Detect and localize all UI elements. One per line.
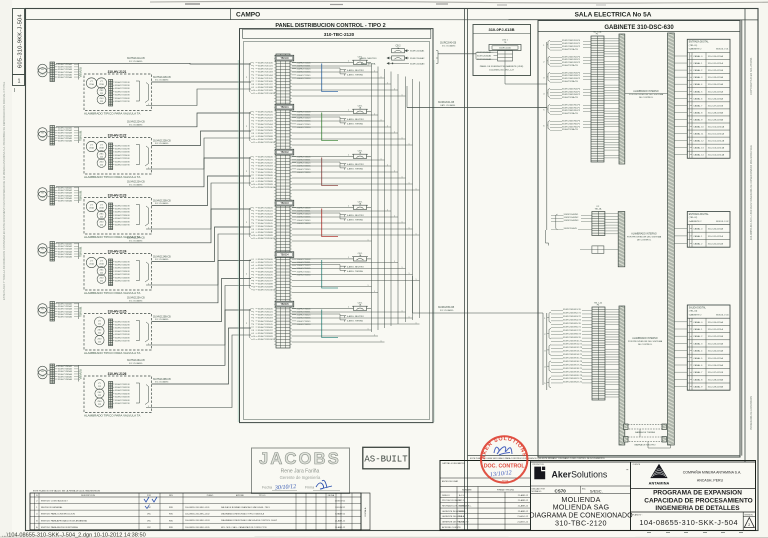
svg-text:4 AWG. TIERRA: 4 AWG. TIERRA <box>347 122 363 125</box>
svg-text:310RC2050/S16-T3: 310RC2050/S16-T3 <box>563 361 583 363</box>
svg-text:ANTES DE USAR: ANTES DE USAR <box>442 480 459 483</box>
svg-text:6: 6 <box>253 274 254 276</box>
gabinete group2 trunk tail <box>546 230 549 246</box>
svg-text:310-C49-0159A: 310-C49-0159A <box>708 118 724 121</box>
svg-text:310HCY2651/N: 310HCY2651/N <box>115 384 130 386</box>
svg-text:310HV2121A-TB: 310HV2121A-TB <box>562 48 578 51</box>
svg-text:TBL 1-2A: TBL 1-2A <box>593 30 602 33</box>
svg-text:4 AWG. NEUTRO: 4 AWG. NEUTRO <box>347 315 364 318</box>
svg-text:1: 1 <box>381 119 382 121</box>
gabinete header <box>538 31 740 33</box>
svg-text:310HCY215A3: 310HCY215A3 <box>58 68 73 71</box>
svg-text:310RC2050/S13-T0: 310RC2050/S13-T0 <box>563 351 583 353</box>
svg-text:PROGRAMA DE EXPANSION: PROGRAMA DE EXPANSION <box>653 490 742 497</box>
svg-text:1: 1 <box>416 279 417 281</box>
svg-text:21-ABR-12: 21-ABR-12 <box>518 494 529 497</box>
svg-text:1: 1 <box>368 239 369 241</box>
svg-text:310HCY2255/5: 310HCY2255/5 <box>258 127 273 129</box>
svg-text:212: 212 <box>98 342 101 344</box>
instrument tag HS-2121 cluster 1 <box>38 64 47 73</box>
svg-text:310-C42-0152A: 310-C42-0152A <box>708 69 724 72</box>
group3 table wires <box>674 321 687 323</box>
cable 310HV2123B-CB wire <box>152 176 252 206</box>
bar link wire group1 <box>625 93 668 95</box>
cable 310HV2123C-CB wire <box>146 183 251 229</box>
fuse feed wire section 2 <box>292 117 345 119</box>
terminal strip valve box cluster 3 <box>109 203 113 230</box>
svg-text:310RC2041/N6-P0: 310RC2041/N6-P0 <box>562 120 581 122</box>
svg-text:1: 1 <box>381 158 382 160</box>
svg-text:310HCY2150/0: 310HCY2150/0 <box>258 63 273 65</box>
svg-text:310-C41-0151A: 310-C41-0151A <box>708 62 724 65</box>
svg-text:TB8403: TB8403 <box>280 202 289 205</box>
section 6 bus connector wires <box>292 311 406 313</box>
terminal strip cluster 3 field <box>50 186 55 206</box>
svg-text:CS70: CS70 <box>555 488 567 493</box>
svg-text:310HCY235A4: 310HCY235A4 <box>58 194 73 197</box>
svg-text:™: ™ <box>626 468 629 472</box>
svg-text:310HCY2257/N: 310HCY2257/N <box>115 165 130 167</box>
svg-text:ALAMBRADO TIPICO PARA VALVULA: ALAMBRADO TIPICO PARA VALVULA TA <box>84 175 140 179</box>
aker solutions logo block <box>531 462 631 531</box>
svg-text:11: 11 <box>253 142 255 144</box>
svg-text:310RC2050/S19-T2: 310RC2050/S19-T2 <box>563 371 583 373</box>
fuse row neutro section 5 <box>344 266 346 268</box>
svg-text:310HV2124B-CB: 310HV2124B-CB <box>153 256 171 258</box>
fuse row tierra section 6 <box>344 320 346 322</box>
svg-text:310-C45-0155A: 310-C45-0155A <box>708 357 724 360</box>
svg-text:310HCY2657/7: 310HCY2657/7 <box>258 330 273 332</box>
svg-text:310RC2040/N2: 310RC2040/N2 <box>564 217 580 219</box>
svg-text:15-ABR-12: 15-ABR-12 <box>335 526 346 529</box>
svg-text:310RC2050/S1-T0: 310RC2050/S1-T0 <box>563 309 582 311</box>
svg-text:1: 1 <box>387 164 388 166</box>
svg-text:7: 7 <box>253 277 254 279</box>
svg-text:CANAL 12: CANAL 12 <box>693 140 704 143</box>
svg-text:212: 212 <box>98 333 101 335</box>
svg-text:215A: 215A <box>89 147 94 150</box>
svg-text:310HCY2554/N: 310HCY2554/N <box>115 331 130 333</box>
svg-text:1: 1 <box>348 206 349 208</box>
svg-text:1: 1 <box>416 233 417 235</box>
svg-text:CAMPO: CAMPO <box>236 12 260 19</box>
cable 310RC2040-CB to 0PJ wire <box>438 53 476 55</box>
svg-text:ZSO: ZSO <box>99 222 104 224</box>
svg-text:NOMBRE: NOMBRE <box>462 490 472 492</box>
svg-text:310HCY2456/6: 310HCY2456/6 <box>258 226 273 228</box>
gabinete group3 channel table <box>687 305 730 390</box>
svg-text:310-HV-2121: 310-HV-2121 <box>108 70 127 74</box>
colored wire section 5 <box>322 260 338 288</box>
svg-text:EMITIDO COMO AS-BUILT: EMITIDO COMO AS-BUILT <box>41 500 68 503</box>
svg-text:(TB1-01): (TB1-01) <box>689 45 698 47</box>
svg-text:21-ABR-12: 21-ABR-12 <box>335 519 346 522</box>
svg-text:CANAL 11: CANAL 11 <box>693 133 704 136</box>
svg-text:1: 1 <box>381 76 382 78</box>
svg-text:310HCY2351/1: 310HCY2351/1 <box>258 160 273 162</box>
svg-text:310HCY25541: 310HCY25541 <box>297 271 312 273</box>
cable 310HV2121B-CB wire <box>152 81 252 83</box>
svg-text:5/C #16 AWG: 5/C #16 AWG <box>129 123 143 126</box>
svg-text:310HCY2356/6: 310HCY2356/6 <box>258 175 273 177</box>
section 1 bus connector wires <box>292 65 372 67</box>
svg-text:ZSC: ZSC <box>100 270 105 272</box>
svg-text:310HCY235A3: 310HCY235A3 <box>58 192 73 195</box>
svg-text:310HV2123A-TB: 310HV2123A-TB <box>562 80 578 83</box>
svg-text:310HCY2655/N: 310HCY2655/N <box>115 397 130 399</box>
svg-text:310HCY22510/10: 310HCY22510/10 <box>258 142 276 144</box>
svg-text:1: 1 <box>416 188 417 190</box>
svg-text:1: 1 <box>253 309 254 311</box>
svg-text:1: 1 <box>394 215 395 217</box>
svg-text:ESCALA: ESCALA <box>364 507 367 516</box>
svg-text:3: 3 <box>253 69 254 71</box>
svg-text:310HCY245A6: 310HCY245A6 <box>58 255 73 258</box>
doc control stamp signature <box>494 447 512 455</box>
svg-text:310HCY22541: 310HCY22541 <box>297 124 312 126</box>
svg-text:EMITIDO PARA REVISION INTERNA: EMITIDO PARA REVISION INTERNA <box>41 526 78 529</box>
svg-text:4: 4 <box>253 318 254 320</box>
svg-text:310RC2041/N5-P0: 310RC2041/N5-P0 <box>562 104 581 106</box>
svg-text:310HCY2357/N: 310HCY2357/N <box>115 225 130 227</box>
svg-text:8: 8 <box>253 178 254 180</box>
svg-text:POR PROVEEDOR DEL SISTEMA: POR PROVEEDOR DEL SISTEMA <box>628 340 663 343</box>
panel left bracket section 3 <box>249 157 250 187</box>
svg-text:310HCY2251/N: 310HCY2251/N <box>115 145 130 147</box>
svg-text:310-C40-0150A: 310-C40-0150A <box>708 227 724 230</box>
svg-text:310HCY2451/1: 310HCY2451/1 <box>258 211 273 213</box>
valve dashed box cluster 5 <box>84 314 152 351</box>
svg-text:310HCY255A4: 310HCY255A4 <box>58 310 73 313</box>
valve dashed box cluster 1 <box>84 74 152 111</box>
svg-text:310HCY2156/N: 310HCY2156/N <box>115 98 130 100</box>
cable 310HV2124A-CB wire <box>56 209 251 243</box>
svg-text:INGENIERIA DE DETALLES: INGENIERIA DE DETALLES <box>655 505 740 512</box>
svg-text:1: 1 <box>409 273 410 275</box>
svg-text:Valvula: Valvula <box>79 131 83 141</box>
zone divider campo/sala <box>464 9 466 531</box>
terminal strip valve box cluster 6 <box>109 382 113 409</box>
cable 310HV2125A-CB wire <box>56 261 251 303</box>
svg-text:MODULO 01: MODULO 01 <box>716 49 729 51</box>
wire bus valvula cluster 5 <box>78 303 80 319</box>
svg-text:MOLIENDA SAG: MOLIENDA SAG <box>553 503 610 512</box>
panel name plate 310-TBC-2120 <box>243 29 431 38</box>
svg-text:310RC2040/N3: 310RC2040/N3 <box>564 220 580 222</box>
svg-text:310HCY2454/4: 310HCY2454/4 <box>258 220 273 222</box>
svg-text:212: 212 <box>98 395 101 397</box>
svg-text:ALAMBRADO INTERNO: ALAMBRADO INTERNO <box>631 233 657 236</box>
svg-text:310-C46-0156A: 310-C46-0156A <box>708 97 724 100</box>
svg-text:310RC2050/S5-T0: 310RC2050/S5-T0 <box>563 323 582 325</box>
top header band line <box>26 19 759 21</box>
svg-text:ZSO: ZSO <box>99 278 104 280</box>
svg-text:310RC2050/S21-T0: 310RC2050/S21-T0 <box>563 378 583 380</box>
svg-text:2: 2 <box>253 211 254 213</box>
svg-text:310-C44-0154A: 310-C44-0154A <box>708 350 724 353</box>
svg-text:310RC2050-CB: 310RC2050-CB <box>438 307 455 309</box>
group3 ladder-bar wires <box>605 309 619 311</box>
svg-text:5/C #16 AWG: 5/C #16 AWG <box>129 299 143 302</box>
panel left bracket section 1 <box>249 63 250 93</box>
svg-text:6: 6 <box>253 78 254 80</box>
svg-text:1: 1 <box>348 110 349 112</box>
svg-text:9: 9 <box>253 87 254 89</box>
svg-text:4 AWG. NEUTRO: 4 AWG. NEUTRO <box>347 163 364 166</box>
svg-text:310HCY2553/N: 310HCY2553/N <box>115 328 130 330</box>
svg-text:CANAL 0: CANAL 0 <box>693 321 703 324</box>
svg-text:310HCY26541: 310HCY26541 <box>297 321 312 323</box>
svg-text:2: 2 <box>253 312 254 314</box>
gabinete group1 brackets <box>548 40 550 49</box>
svg-text:6: 6 <box>253 127 254 129</box>
svg-text:310HCY2250/0: 310HCY2250/0 <box>258 112 273 114</box>
colored wire section 6 <box>322 310 338 338</box>
svg-text:4: 4 <box>253 217 254 219</box>
panel left bracket section 6 <box>249 309 250 339</box>
svg-text:310HCY25510/10: 310HCY25510/10 <box>258 290 276 292</box>
barra neutro end block right <box>662 437 667 443</box>
svg-text:310HCY2552/2: 310HCY2552/2 <box>258 265 273 267</box>
svg-text:CANAL 7: CANAL 7 <box>693 104 703 107</box>
svg-text:310HCY2659/9: 310HCY2659/9 <box>258 336 273 338</box>
valve dashed box cluster 6 <box>84 376 152 413</box>
svg-text:Valvula: Valvula <box>79 307 83 317</box>
svg-text:1: 1 <box>348 61 349 63</box>
svg-text:310HCY2457/N: 310HCY2457/N <box>115 281 130 283</box>
svg-text:1: 1 <box>18 79 21 85</box>
fuse feed wire section 1 <box>292 68 345 70</box>
svg-text:ZSO: ZSO <box>99 98 104 100</box>
svg-text:310RC2050/S4-T3: 310RC2050/S4-T3 <box>563 320 582 322</box>
svg-text:R.V.D.,O.R.L.: R.V.D.,O.R.L. <box>459 506 472 508</box>
svg-text:310-C50-01510A: 310-C50-01510A <box>708 126 725 129</box>
svg-text:ALAMBRADO TIPICO PARA VALVULA: ALAMBRADO TIPICO PARA VALVULA TA <box>84 112 140 116</box>
svg-text:8: 8 <box>253 133 254 135</box>
svg-text:PLANO N° :: PLANO N° : <box>633 513 644 516</box>
svg-text:310RC2050/S20-T3: 310RC2050/S20-T3 <box>563 375 583 377</box>
svg-text:310HCY2451/N: 310HCY2451/N <box>115 261 130 263</box>
svg-text:215B: 215B <box>99 148 104 150</box>
svg-text:310RC2040A3: 310RC2040A3 <box>410 62 425 65</box>
svg-text:310HCY2353/N: 310HCY2353/N <box>115 212 130 214</box>
svg-text:310HCY2455/N: 310HCY2455/N <box>115 274 130 276</box>
svg-text:JRC: JRC <box>147 520 152 522</box>
svg-text:310-C43-0153A: 310-C43-0153A <box>708 76 724 79</box>
panel feed collector wire <box>437 51 439 64</box>
terminal strip valve box cluster 2 <box>109 143 113 170</box>
colored wire section 2 <box>322 113 338 141</box>
svg-text:CANAL 5: CANAL 5 <box>693 90 703 93</box>
svg-text:310HCY2555/N: 310HCY2555/N <box>115 334 130 336</box>
svg-text:310HCY2658/8: 310HCY2658/8 <box>258 333 273 335</box>
svg-text:310RC2050/S10-T1: 310RC2050/S10-T1 <box>563 340 583 342</box>
svg-text:310HCY21510/10: 310HCY21510/10 <box>258 93 276 95</box>
svg-text:DE CONTROL: DE CONTROL <box>637 240 652 242</box>
svg-text:310HCY2653/N: 310HCY2653/N <box>115 390 130 392</box>
svg-text:310RC2040-CB: 310RC2040-CB <box>440 43 457 45</box>
gabinete group3 marshalling bar <box>619 306 625 445</box>
svg-text:310HCY2355/5: 310HCY2355/5 <box>258 172 273 174</box>
svg-text:ZSC: ZSC <box>100 90 105 92</box>
svg-text:310RC2050/S8-T3: 310RC2050/S8-T3 <box>563 333 582 335</box>
group1 ladder-bar wires <box>604 37 619 39</box>
scan color fringe on panel border <box>237 60 239 422</box>
svg-text:310HCY2558/8: 310HCY2558/8 <box>258 284 273 286</box>
svg-text:310-C48-0158A: 310-C48-0158A <box>708 111 724 114</box>
svg-text:1: 1 <box>374 334 375 336</box>
svg-text:310HCY2352/N: 310HCY2352/N <box>115 209 130 211</box>
svg-text:310HCY235A5: 310HCY235A5 <box>58 197 73 200</box>
svg-text:ESTE PLANO NO ES VALIDO SIN LA: ESTE PLANO NO ES VALIDO SIN LA FIRMA DE … <box>33 490 101 493</box>
svg-text:310HCY215A2: 310HCY215A2 <box>58 66 73 69</box>
svg-text:JRC: JRC <box>147 514 152 516</box>
svg-text:310HCY22521: 310HCY22521 <box>297 118 312 120</box>
svg-text:1: 1 <box>374 70 375 72</box>
svg-text:5/C #16 AWG: 5/C #16 AWG <box>155 79 169 82</box>
svg-text:Rene Jara Fariña: Rene Jara Fariña <box>281 469 320 475</box>
svg-text:310HCY2450/0: 310HCY2450/0 <box>258 208 273 210</box>
svg-text:310-C47-0157A: 310-C47-0157A <box>708 104 724 107</box>
svg-text:310RC2041/N1-P2: 310RC2041/N1-P2 <box>562 46 581 48</box>
plano number cell <box>631 511 756 513</box>
svg-text:310HCY2355/N: 310HCY2355/N <box>115 218 130 220</box>
svg-text:21-ABR-12: 21-ABR-12 <box>518 505 529 508</box>
svg-text:310HCY2556/6: 310HCY2556/6 <box>258 277 273 279</box>
svg-text:1: 1 <box>409 182 410 184</box>
svg-text:4: 4 <box>253 166 254 168</box>
svg-text:9: 9 <box>253 284 254 286</box>
svg-text:310HCY255A2: 310HCY255A2 <box>58 305 73 308</box>
wire bus valvula cluster 1 <box>78 64 80 80</box>
svg-text:SALIDA DE BOMBAS CHANCADO VALV: SALIDA DE BOMBAS CHANCADO VALVULAS - TBL… <box>221 506 270 509</box>
svg-text:7: 7 <box>253 81 254 83</box>
svg-text:310HCY2357/7: 310HCY2357/7 <box>258 178 273 180</box>
svg-text:7: 7 <box>253 175 254 177</box>
svg-text:310RC2041/N1-P0: 310RC2041/N1-P0 <box>562 40 581 42</box>
svg-text:215A: 215A <box>89 83 94 86</box>
svg-text:1: 1 <box>402 221 403 223</box>
svg-text:1: 1 <box>402 137 403 139</box>
gabinete group2 terminal ladder <box>592 212 605 236</box>
svg-text:TB8100: TB8100 <box>280 57 289 60</box>
svg-text:310-C42-0152A: 310-C42-0152A <box>708 335 724 338</box>
svg-text:310HCY2352/2: 310HCY2352/2 <box>258 163 273 165</box>
barra neutro end block left <box>624 437 629 443</box>
cable 310RC2041-CB wire <box>407 107 547 109</box>
svg-text:310HCY24541: 310HCY24541 <box>297 220 312 222</box>
svg-text:310RC2040/A1: 310RC2040/A1 <box>477 51 492 54</box>
svg-text:310HCY2458/8: 310HCY2458/8 <box>258 232 273 234</box>
svg-text:CANAL 1: CANAL 1 <box>693 62 703 65</box>
panel left bracket section 4 <box>249 208 250 238</box>
panel 310-0PJ-613B box <box>473 25 531 76</box>
cable 310HV2124B-CB wire <box>152 227 252 262</box>
svg-text:1: 1 <box>387 125 388 127</box>
svg-text:9: 9 <box>253 136 254 138</box>
barra tierra end block right <box>662 424 667 430</box>
svg-text:PLANO: PLANO <box>207 494 214 497</box>
fuse feed wire section 6 <box>292 314 345 316</box>
solenoid circles cluster 3 <box>86 201 96 211</box>
title block frame <box>440 461 756 531</box>
left margin sheet number box <box>13 75 25 86</box>
svg-text:310-C46-0156A: 310-C46-0156A <box>708 364 724 367</box>
svg-text:22-ABR-12: 22-ABR-12 <box>518 510 529 513</box>
svg-text:DESCRIPCION: DESCRIPCION <box>81 495 95 497</box>
svg-text:310-HV-2124: 310-HV-2124 <box>108 249 127 253</box>
cable 310HV2126C-CB wire <box>146 335 251 408</box>
svg-text:215: 215 <box>100 101 103 103</box>
svg-text:1: 1 <box>348 155 349 157</box>
svg-text:605-310-9KK-J-504: 605-310-9KK-J-504 <box>18 14 24 68</box>
svg-text:6: 6 <box>253 172 254 174</box>
svg-text:310HCY21501: 310HCY21501 <box>297 63 312 65</box>
svg-text:310HCY25521: 310HCY25521 <box>297 265 312 267</box>
gabinete group1 terminal ladder <box>591 36 604 162</box>
svg-text:1: 1 <box>374 113 375 115</box>
svg-text:212: 212 <box>98 404 101 406</box>
colored wire section 3 <box>322 158 338 186</box>
svg-text:310HCY25501: 310HCY25501 <box>297 259 312 261</box>
svg-text:1: 1 <box>253 208 254 210</box>
terminal strip cluster 6 field <box>50 364 55 384</box>
svg-text:1: 1 <box>402 176 403 178</box>
svg-text:310-HV-2123: 310-HV-2123 <box>108 193 127 197</box>
svg-text:215: 215 <box>100 281 103 283</box>
svg-text:1: 1 <box>253 112 254 114</box>
fuse row neutro section 3 <box>344 164 346 166</box>
svg-text:4: 4 <box>253 268 254 270</box>
svg-text:8: 8 <box>253 330 254 332</box>
svg-text:CANAL 10: CANAL 10 <box>693 126 704 129</box>
svg-text:310HCY215A6: 310HCY215A6 <box>58 76 73 79</box>
svg-text:TBL 1-04: TBL 1-04 <box>594 302 603 304</box>
svg-text:215: 215 <box>100 93 103 95</box>
svg-text:COMPAÑIA MINERA ANTAMINA S.A.: COMPAÑIA MINERA ANTAMINA S.A. <box>683 470 742 475</box>
gabinete group3 trunk wire <box>542 313 544 385</box>
svg-text:TB8201: TB8201 <box>280 106 289 109</box>
solenoid circles cluster 2 <box>86 141 96 151</box>
svg-text:310HCY24501: 310HCY24501 <box>297 208 312 210</box>
svg-text:310HCY2354/N: 310HCY2354/N <box>115 215 130 217</box>
svg-text:ZSO: ZSO <box>99 162 104 164</box>
svg-text:MODULO 02: MODULO 02 <box>716 221 729 223</box>
svg-text:310RC2041/N2-P2: 310RC2041/N2-P2 <box>562 62 581 64</box>
svg-text:310-C51-01511A: 310-C51-01511A <box>708 133 725 136</box>
ladder section header TB4 <box>275 200 294 206</box>
vertical bus wires panel right <box>371 64 373 332</box>
group2 table wires <box>674 227 687 229</box>
panel 310-0PJ-613B name <box>473 33 531 35</box>
ladder section header TB6 <box>275 301 294 307</box>
program title lines <box>631 488 756 490</box>
barra de tierra <box>628 425 662 430</box>
svg-text:1: 1 <box>394 88 395 90</box>
svg-text:104-08655-310-SKK-J-504 REV.2: 104-08655-310-SKK-J-504 REV.2 DIAGRAMA D… <box>750 145 753 240</box>
svg-text:11: 11 <box>253 290 255 292</box>
svg-text:5: 5 <box>253 75 254 77</box>
svg-text:FECHA: FECHA <box>328 494 335 497</box>
svg-text:10: 10 <box>253 184 255 186</box>
svg-text:310HCY245A2: 310HCY245A2 <box>58 245 73 248</box>
gabinete group2 bracket <box>556 214 558 230</box>
svg-text:310HCY2453/3: 310HCY2453/3 <box>258 217 273 219</box>
svg-text:310RC2040/A2: 310RC2040/A2 <box>477 55 492 58</box>
svg-text:REVISION: REVISION <box>745 515 754 517</box>
svg-text:310HCY2653/3: 310HCY2653/3 <box>258 318 273 320</box>
svg-text:310HV2123B-CB: 310HV2123B-CB <box>153 200 171 202</box>
